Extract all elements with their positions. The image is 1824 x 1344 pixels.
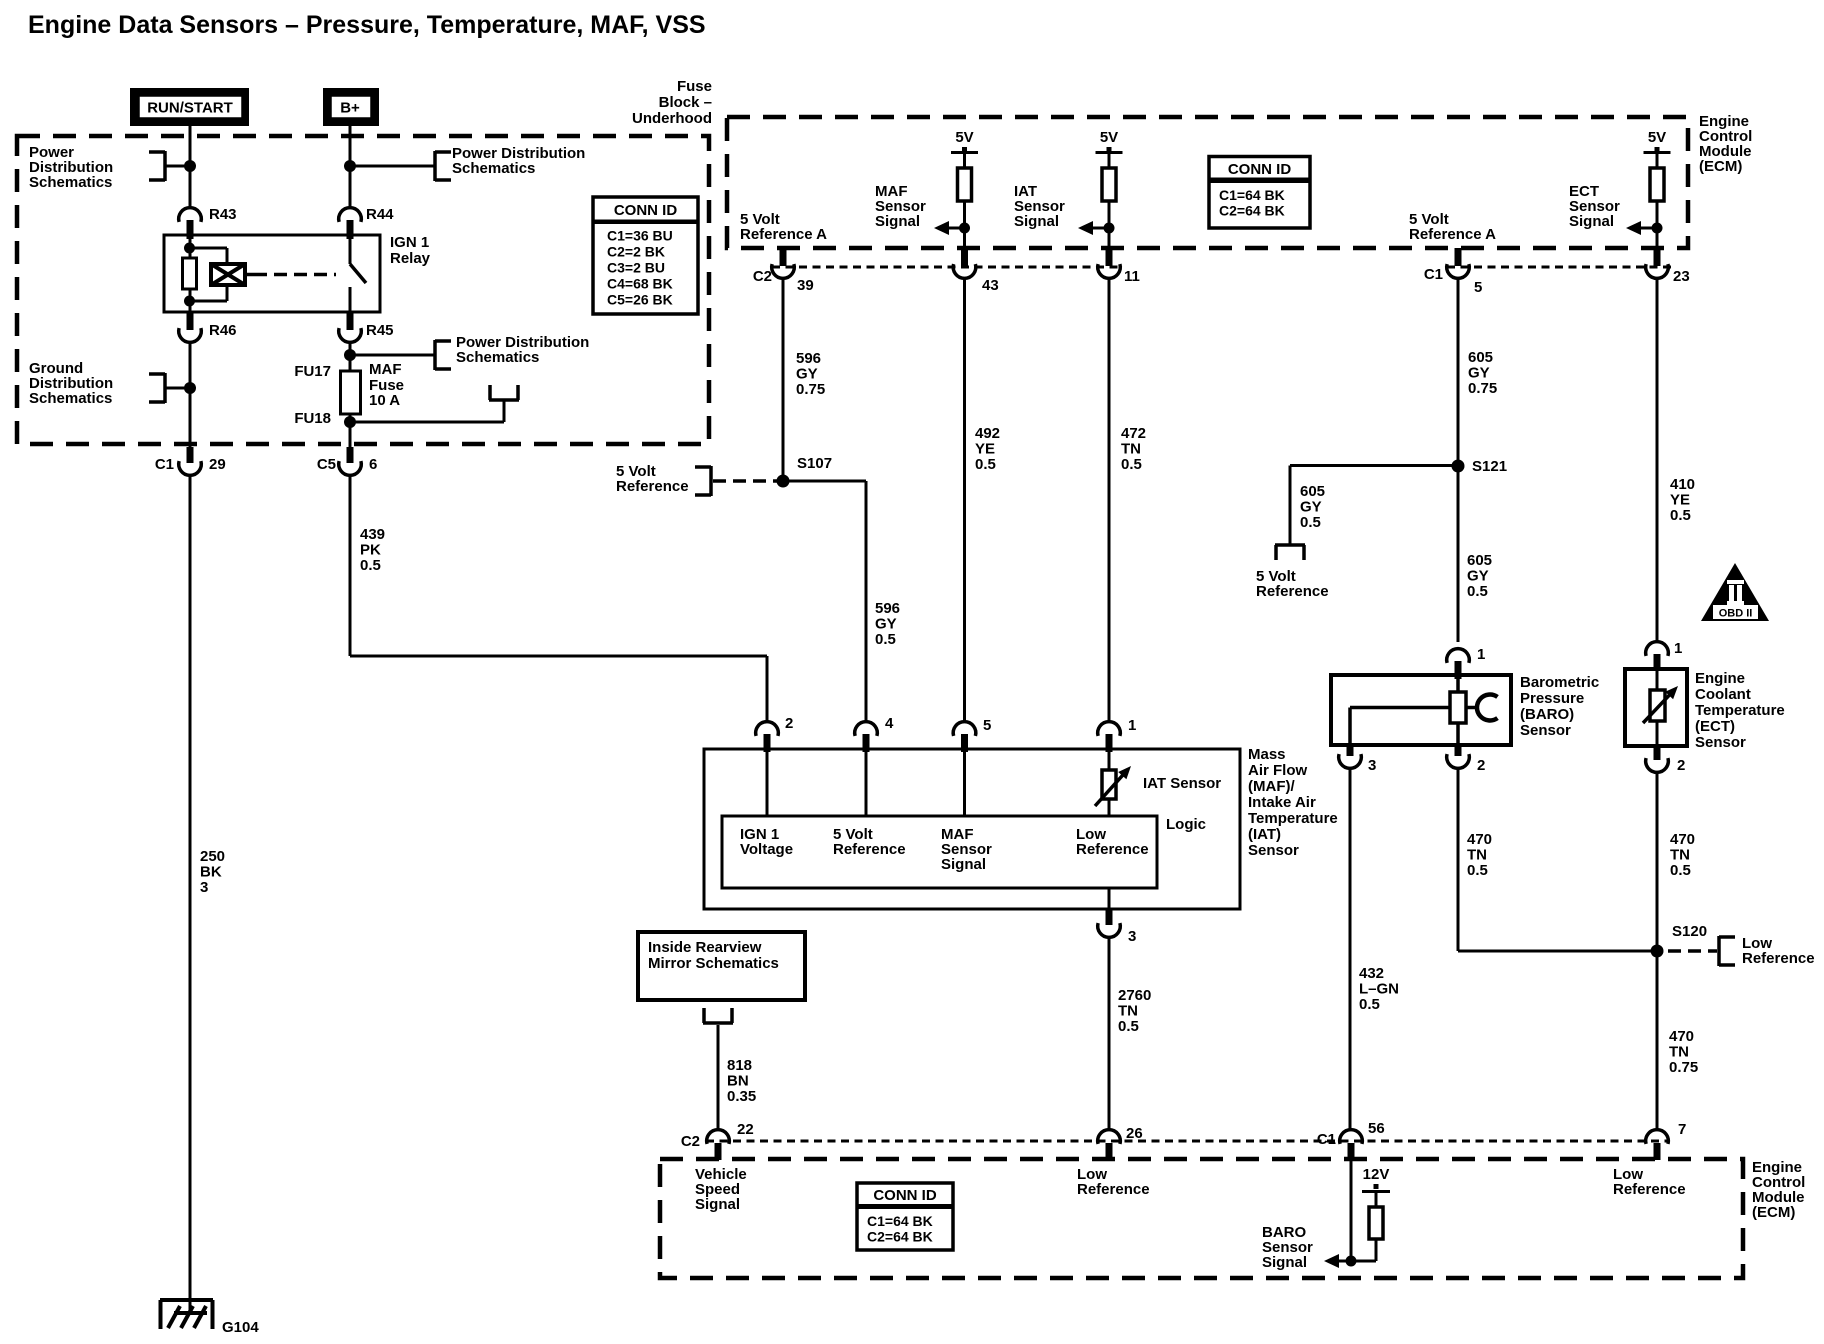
svg-text:Underhood: Underhood [632, 110, 712, 127]
wire: fuse bottom to C5-6 [349, 414, 352, 447]
label: Power Distribution Schematics (R45) [456, 334, 589, 366]
svg-text:Fuse: Fuse [677, 78, 712, 95]
Engine Control Module (ECM) dashed box top [727, 117, 1688, 248]
arrow + node: IAT Sensor Signal [1078, 221, 1115, 235]
label: Engine Coolant Temperature (ECT) Sensor [1695, 670, 1785, 751]
label: 410 YE 0.5 [1670, 476, 1695, 524]
svg-text:2760: 2760 [1118, 987, 1151, 1004]
svg-text:492: 492 [975, 425, 1000, 442]
arrow + node: MAF Sensor Signal [934, 221, 970, 235]
connector BARO pin 1 [1447, 646, 1486, 679]
svg-text:Signal: Signal [1569, 213, 1614, 230]
relay coil branch wires [190, 239, 228, 312]
connector R45 [339, 312, 394, 342]
fuse FU17/FU18: MAF Fuse 10 A [294, 361, 404, 427]
resistor element inside BARO [1450, 692, 1466, 723]
wire 596 GY 0.75: pin 39 to S107 [782, 278, 785, 481]
svg-text:CONN ID: CONN ID [614, 202, 678, 219]
label: 2760 TN 0.5 [1118, 987, 1151, 1035]
svg-text:Temperature: Temperature [1695, 702, 1785, 719]
svg-text:Sensor: Sensor [1248, 842, 1299, 859]
svg-text:GY: GY [1468, 365, 1490, 382]
label: 432 L-GN 0.5 [1359, 965, 1399, 1013]
label: 596 GY 0.75 [796, 350, 825, 398]
svg-text:5V: 5V [955, 129, 973, 146]
svg-text:BN: BN [727, 1073, 749, 1090]
dotted connector line (ECM bottom) [706, 1140, 1670, 1143]
connector ECT pin 2 [1646, 746, 1686, 774]
svg-text:Reference: Reference [1613, 1181, 1686, 1198]
label: Power Distribution Schematics (B+) [452, 145, 585, 177]
label: Mass Air Flow (MAF)/ Intake Air Temperature (IAT) Sensor [1248, 746, 1338, 859]
svg-text:470: 470 [1670, 831, 1695, 848]
label: IGN 1 Voltage [740, 826, 793, 858]
wire 470 TN 0.75: S120 to ECM pin 7 [1656, 951, 1659, 1130]
connector R46 [179, 312, 237, 342]
svg-text:Reference: Reference [1077, 1181, 1150, 1198]
svg-text:4: 4 [885, 715, 894, 732]
svg-text:C1: C1 [155, 456, 174, 473]
Barometric Pressure (BARO) Sensor box [1331, 675, 1511, 745]
svg-text:Sensor: Sensor [1695, 734, 1746, 751]
CONN ID table (top ECM) [1209, 157, 1310, 229]
svg-text:C2: C2 [753, 268, 772, 285]
label: IAT Sensor [1143, 775, 1221, 792]
connector C2 pin 39 [753, 248, 814, 294]
label: 605 GY 0.5 (right) [1467, 552, 1492, 600]
connector C1 pin 56 [1317, 1120, 1385, 1160]
label: Low Reference (pin 7) [1613, 1166, 1686, 1198]
resistor: ECT sensor signal 5V pull-up [1644, 129, 1671, 248]
RUN/START power feed box [130, 88, 249, 126]
svg-text:OBD II: OBD II [1719, 608, 1753, 620]
BARO pressure port crescent [1477, 695, 1498, 721]
connector MAF pin 1 [1098, 717, 1137, 752]
svg-text:Signal: Signal [1014, 213, 1059, 230]
label: MAF Sensor Signal [875, 183, 926, 230]
CONN ID table (fuse block) [593, 197, 698, 314]
wire 410 YE 0.5: pin 23 to ECT pin 1 [1656, 278, 1659, 642]
off-page bracket: Power Distribution Schematics (R45) [435, 340, 451, 370]
connector pin 23 [1646, 248, 1690, 285]
arrow + node: BARO Sensor Signal [1324, 1254, 1376, 1268]
label: 605 GY 0.5 (left) [1300, 483, 1325, 531]
IAT sensor thermistor symbol inside MAF [1095, 766, 1131, 806]
svg-text:PK: PK [360, 542, 381, 559]
svg-text:Coolant: Coolant [1695, 686, 1751, 703]
svg-text:C2=64 BK: C2=64 BK [1219, 203, 1285, 219]
svg-text:0.5: 0.5 [1670, 507, 1691, 524]
svg-text:S121: S121 [1472, 458, 1507, 475]
wire: B+ down to R44 [349, 126, 352, 208]
svg-text:0.5: 0.5 [875, 631, 896, 648]
svg-text:Logic: Logic [1166, 816, 1206, 833]
label: Engine Control Module (ECM) bottom [1752, 1159, 1805, 1221]
svg-text:0.5: 0.5 [1670, 862, 1691, 879]
svg-text:C1=64 BK: C1=64 BK [1219, 187, 1285, 203]
svg-text:TN: TN [1121, 441, 1141, 458]
svg-text:818: 818 [727, 1057, 752, 1074]
svg-text:Reference A: Reference A [1409, 226, 1496, 243]
wire 470 TN 0.5: BARO pin 2 to S120 [1458, 768, 1657, 951]
svg-text:0.35: 0.35 [727, 1088, 756, 1105]
wire 605 GY 0.75: C1 pin 5 to S121 [1457, 278, 1460, 466]
svg-text:0.75: 0.75 [1468, 380, 1497, 397]
svg-text:Reference A: Reference A [740, 226, 827, 243]
connector BARO pin 2 [1447, 745, 1486, 774]
svg-text:Intake Air: Intake Air [1248, 794, 1316, 811]
wire: R46 to C1-29 with ground distribution tap [189, 342, 192, 447]
wire 432 L-GN 0.5: BARO pin 3 to ECM C1 pin 56 [1349, 768, 1352, 1130]
svg-text:GY: GY [1467, 568, 1489, 585]
arrow + node: ECT Sensor Signal [1626, 221, 1663, 235]
svg-text:(ECM): (ECM) [1752, 1204, 1795, 1221]
svg-text:2: 2 [785, 715, 793, 732]
svg-text:C5=26 BK: C5=26 BK [607, 292, 673, 308]
svg-text:C2: C2 [681, 1133, 700, 1150]
svg-text:Inside Rearview: Inside Rearview [648, 939, 762, 956]
node: junction to power distribution bracket (B+) [344, 160, 435, 172]
svg-text:5V: 5V [1100, 129, 1118, 146]
svg-text:GY: GY [1300, 499, 1322, 516]
svg-text:R46: R46 [209, 322, 237, 339]
connector MAF pin 5 [953, 717, 991, 752]
resistor: IAT sensor signal 5V pull-up [1096, 129, 1123, 248]
connector R43 [179, 206, 237, 239]
svg-text:YE: YE [975, 441, 995, 458]
svg-text:GY: GY [796, 366, 818, 383]
off-page bracket: Power Distribution Schematics (B+) [435, 151, 451, 181]
label: Low Reference (pin 26) [1077, 1166, 1150, 1198]
label: Vehicle Speed Signal [695, 1166, 747, 1213]
svg-text:23: 23 [1673, 268, 1690, 285]
svg-text:Temperature: Temperature [1248, 810, 1338, 827]
svg-text:5: 5 [983, 717, 991, 734]
resistor: MAF sensor signal 5V pull-up [951, 129, 978, 248]
svg-text:TN: TN [1670, 847, 1690, 864]
svg-text:(IAT): (IAT) [1248, 826, 1281, 843]
title: Engine Data Sensors – Pressure, Temperature, MAF, VSS [28, 11, 706, 39]
off-page bracket: Power Distribution Schematics (left) [149, 151, 165, 181]
wire: R45 to MAF fuse [349, 342, 352, 371]
svg-text:3: 3 [1128, 928, 1136, 945]
svg-text:Voltage: Voltage [740, 841, 793, 858]
label: 470 TN 0.75 [1669, 1028, 1698, 1076]
svg-text:0.5: 0.5 [360, 557, 381, 574]
connector MAF pin 3 [1098, 909, 1137, 945]
svg-text:410: 410 [1670, 476, 1695, 493]
svg-text:0.5: 0.5 [1467, 862, 1488, 879]
svg-text:GY: GY [875, 616, 897, 633]
svg-text:C1: C1 [1317, 1131, 1336, 1148]
dotted connector line (ECM top, right group) [1447, 266, 1674, 269]
wire 596 GY 0.5: S107 to MAF pin 4 [783, 481, 866, 722]
wire 605 GY 0.5: S121 to 5 Volt Reference bracket [1290, 466, 1458, 546]
svg-text:Reference: Reference [616, 478, 689, 495]
svg-text:Engine: Engine [1695, 670, 1745, 687]
svg-text:6: 6 [369, 456, 377, 473]
off-page bracket: 5 Volt Reference (S121) [1275, 545, 1305, 560]
svg-text:C2=64 BK: C2=64 BK [867, 1229, 933, 1245]
svg-text:TN: TN [1467, 847, 1487, 864]
svg-text:0.5: 0.5 [1359, 996, 1380, 1013]
node: junction to power distribution bracket (R45) [344, 349, 435, 361]
connector C2 pin 22 [681, 1121, 754, 1160]
svg-text:470: 470 [1669, 1028, 1694, 1045]
svg-text:0.5: 0.5 [1300, 514, 1321, 531]
node: relay top junction [184, 243, 195, 254]
wire 250 BK 3: C1-29 to G104 ground [189, 475, 192, 1313]
relay solenoid coil (box with X) [211, 264, 245, 285]
svg-text:Schematics: Schematics [29, 390, 112, 407]
svg-text:CONN ID: CONN ID [1228, 161, 1292, 178]
wire: pin 56 down to BARO signal node [1350, 1160, 1353, 1261]
connector R44 [339, 206, 394, 239]
label: 818 BN 0.35 [727, 1057, 756, 1105]
connector ECT pin 1 [1646, 640, 1683, 670]
connector C5 pin 6 [317, 447, 378, 475]
connector pin 26 [1098, 1125, 1143, 1160]
svg-text:10 A: 10 A [369, 392, 400, 409]
svg-text:TN: TN [1118, 1003, 1138, 1020]
B+ power feed box [323, 88, 379, 126]
label: BARO Sensor Signal [1262, 1224, 1313, 1271]
svg-text:Signal: Signal [695, 1196, 740, 1213]
svg-text:RUN/START: RUN/START [147, 100, 233, 117]
connector C1 pin 29 [155, 447, 226, 475]
wire 818 BN 0.35: mirror to ECM C2 pin 22 [717, 1025, 720, 1130]
svg-text:1: 1 [1674, 640, 1682, 657]
svg-text:FU17: FU17 [294, 363, 331, 380]
svg-text:(ECM): (ECM) [1699, 158, 1742, 175]
svg-text:R44: R44 [366, 206, 394, 223]
off-page bracket: Low Reference (S120) [1719, 936, 1735, 966]
svg-text:S107: S107 [797, 455, 832, 472]
label: 492 YE 0.5 [975, 425, 1000, 473]
svg-text:Reference: Reference [1256, 583, 1329, 600]
label: 5 Volt Reference (S121) [1256, 568, 1329, 600]
label: 596 GY 0.5 [875, 600, 900, 648]
svg-text:0.5: 0.5 [975, 456, 996, 473]
svg-text:3: 3 [200, 879, 208, 896]
svg-text:CONN ID: CONN ID [873, 1187, 937, 1204]
svg-text:FU18: FU18 [294, 410, 331, 427]
off-page bracket: 5 Volt Reference (S107) [695, 466, 711, 496]
label: 5 Volt Reference (logic) [833, 826, 906, 858]
svg-text:R45: R45 [366, 322, 394, 339]
label: MAF Sensor Signal (logic) [941, 826, 992, 873]
label: IAT Sensor Signal [1014, 183, 1065, 230]
wire 439 PK 0.5: C5-6 to MAF pin 2 [350, 475, 767, 722]
OBD II symbol [1701, 563, 1769, 621]
label: G104 [222, 1319, 259, 1336]
svg-text:0.75: 0.75 [1669, 1059, 1698, 1076]
connector BARO pin 3 [1339, 745, 1377, 774]
node: junction to power distribution bracket [165, 160, 196, 172]
svg-text:C1=36 BU: C1=36 BU [607, 228, 673, 244]
svg-text:26: 26 [1126, 1125, 1143, 1142]
svg-text:YE: YE [1670, 492, 1690, 509]
dashed actuation line of relay [245, 273, 336, 277]
svg-text:(ECT): (ECT) [1695, 718, 1735, 735]
svg-text:IGN 1: IGN 1 [390, 234, 429, 251]
node S107 splice [777, 455, 833, 488]
svg-text:470: 470 [1467, 831, 1492, 848]
svg-text:432: 432 [1359, 965, 1384, 982]
svg-text:Schematics: Schematics [452, 160, 535, 177]
svg-text:Reference: Reference [833, 841, 906, 858]
svg-text:C4=68 BK: C4=68 BK [607, 276, 673, 292]
MAF/IAT sensor outer box [704, 749, 1240, 909]
svg-text:Sensor: Sensor [1520, 722, 1571, 739]
svg-text:TN: TN [1669, 1044, 1689, 1061]
svg-text:Reference: Reference [1076, 841, 1149, 858]
svg-text:Reference: Reference [1742, 950, 1815, 967]
label: 5 Volt Reference A (right) [1409, 211, 1496, 243]
connector MAF pin 4 [855, 715, 894, 752]
resistor: relay coil suppression resistor [183, 258, 197, 289]
svg-text:C1: C1 [1424, 266, 1443, 283]
svg-text:B+: B+ [340, 100, 360, 117]
label: Barometric Pressure (BARO) Sensor [1520, 674, 1599, 739]
MAF logic inner box [722, 816, 1157, 888]
svg-text:56: 56 [1368, 1120, 1385, 1137]
label: 472 TN 0.5 [1121, 425, 1146, 473]
relay switch: fixed contacts and blade [350, 235, 366, 312]
label: ECT Sensor Signal [1569, 183, 1620, 230]
svg-text:IAT Sensor: IAT Sensor [1143, 775, 1221, 792]
label: 5 Volt Reference (S107) [616, 463, 689, 495]
svg-text:BK: BK [200, 864, 222, 881]
wire: logic box low reference to MAF pin 3 [1108, 888, 1111, 909]
svg-text:605: 605 [1300, 483, 1325, 500]
svg-text:Signal: Signal [875, 213, 920, 230]
connector pin 7 [1646, 1121, 1687, 1160]
svg-text:472: 472 [1121, 425, 1146, 442]
BARO internal wires [1350, 679, 1478, 745]
svg-text:R43: R43 [209, 206, 237, 223]
svg-text:Schematics: Schematics [29, 174, 112, 191]
svg-text:Barometric: Barometric [1520, 674, 1599, 691]
label: 470 TN 0.5 (ECT) [1670, 831, 1695, 879]
wire 470 TN 0.5: ECT pin 2 to S120 [1656, 772, 1659, 951]
svg-text:Engine Data Sensors – Pressure: Engine Data Sensors – Pressure, Temperat… [28, 11, 706, 39]
svg-text:11: 11 [1124, 268, 1140, 285]
svg-text:C2=2 BK: C2=2 BK [607, 244, 665, 260]
label: 439 PK 0.5 [360, 526, 385, 574]
label: 250 BK 3 [200, 848, 225, 896]
svg-text:Schematics: Schematics [456, 349, 539, 366]
svg-text:Air Flow: Air Flow [1248, 762, 1307, 779]
svg-text:605: 605 [1468, 349, 1493, 366]
svg-text:C5: C5 [317, 456, 336, 473]
svg-text:22: 22 [737, 1121, 754, 1138]
label: 605 GY 0.75 [1468, 349, 1497, 397]
connector MAF pin 2 [756, 715, 794, 752]
svg-text:Signal: Signal [1262, 1254, 1307, 1271]
connector pin 43 [953, 248, 998, 294]
svg-text:596: 596 [796, 350, 821, 367]
wire 2760 TN 0.5: MAF pin 3 to ECM pin 26 [1108, 937, 1111, 1130]
svg-text:1: 1 [1128, 717, 1136, 734]
svg-text:Relay: Relay [390, 250, 431, 267]
label: Logic [1166, 816, 1206, 833]
node S120 splice [1651, 923, 1708, 958]
node S121 splice [1452, 458, 1508, 475]
wire 492 YE 0.5: pin 43 to MAF pin 5 [963, 278, 966, 722]
wire 605 GY 0.5: S121 to BARO pin 1 [1457, 466, 1460, 642]
off-page bracket under mirror box [703, 1008, 733, 1023]
svg-text:Signal: Signal [941, 856, 986, 873]
label: Fuse Block - Underhood [632, 78, 712, 127]
label: Power Distribution Schematics (top left) [29, 144, 113, 191]
svg-text:Pressure: Pressure [1520, 690, 1584, 707]
CONN ID table (bottom ECM) [857, 1183, 953, 1250]
svg-text:12V: 12V [1363, 1166, 1390, 1183]
svg-text:596: 596 [875, 600, 900, 617]
dotted connector line (ECM top, left group) [772, 266, 1122, 269]
svg-text:250: 250 [200, 848, 225, 865]
svg-text:C1=64 BK: C1=64 BK [867, 1213, 933, 1229]
Engine Coolant Temperature (ECT) Sensor box [1625, 669, 1687, 746]
svg-text:5: 5 [1474, 279, 1482, 296]
svg-text:L–GN: L–GN [1359, 981, 1399, 998]
Engine Control Module (ECM) dashed box bottom [660, 1159, 1743, 1278]
svg-text:3: 3 [1368, 757, 1376, 774]
node: relay bottom junction [184, 296, 195, 307]
Inside Rearview Mirror Schematics box [638, 932, 805, 1000]
svg-text:0.5: 0.5 [1118, 1018, 1139, 1035]
off-page bracket: Ground Distribution Schematics [149, 373, 165, 403]
ground G104 symbol [160, 1300, 213, 1329]
svg-text:39: 39 [797, 277, 814, 294]
svg-text:(MAF)/: (MAF)/ [1248, 778, 1295, 795]
svg-text:2: 2 [1677, 757, 1685, 774]
svg-text:0.75: 0.75 [796, 381, 825, 398]
svg-text:0.5: 0.5 [1467, 583, 1488, 600]
resistor: BARO signal 12V pull-up [1362, 1166, 1390, 1261]
dashed wire: S107 to 5 Volt Reference bracket [713, 479, 783, 483]
label: IGN 1 Relay [390, 234, 431, 267]
svg-text:43: 43 [982, 277, 999, 294]
fuse block underhood dashed box [17, 136, 709, 444]
label: Ground Distribution Schematics [29, 360, 113, 407]
svg-text:0.5: 0.5 [1121, 456, 1142, 473]
wire 472 TN 0.5: pin 11 to MAF pin 1 [1108, 278, 1111, 722]
ECT thermistor element [1643, 670, 1678, 746]
label: Low Reference (S120) [1742, 935, 1815, 967]
svg-text:C3=2 BU: C3=2 BU [607, 260, 665, 276]
svg-text:Block –: Block – [659, 94, 712, 111]
connector C1 pin 5 [1424, 248, 1483, 296]
svg-text:(BARO): (BARO) [1520, 706, 1574, 723]
wire: RUN/START down to R43 [189, 126, 192, 208]
label: 5 Volt Reference A (left) [740, 211, 827, 243]
svg-text:MAF: MAF [369, 361, 402, 378]
svg-text:439: 439 [360, 526, 385, 543]
label: 470 TN 0.5 (BARO) [1467, 831, 1492, 879]
svg-text:7: 7 [1678, 1121, 1686, 1138]
svg-text:S120: S120 [1672, 923, 1707, 940]
svg-text:Mirror Schematics: Mirror Schematics [648, 955, 779, 972]
node: junction to ground distribution bracket [165, 382, 196, 394]
svg-text:605: 605 [1467, 552, 1492, 569]
svg-text:Mass: Mass [1248, 746, 1286, 763]
svg-text:2: 2 [1477, 757, 1485, 774]
svg-text:5V: 5V [1648, 129, 1666, 146]
svg-text:G104: G104 [222, 1319, 259, 1336]
wires inside MAF sensor from pins to logic box [767, 752, 1109, 816]
